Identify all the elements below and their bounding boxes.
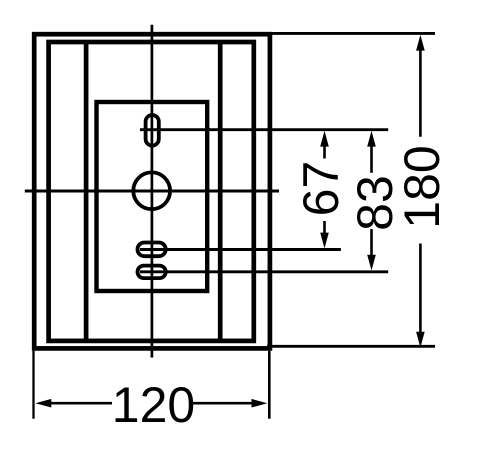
dimension 83: lower line segment [370, 229, 373, 256]
outer plate outline [34, 34, 270, 348]
dimension 67: bottom arrow [320, 233, 329, 249]
vertical centerline [151, 25, 154, 358]
extension line B (through lower slot 1) [140, 248, 341, 251]
extension line A (through top slot) [140, 128, 388, 131]
top extension line for 180 [267, 32, 435, 35]
dimension 180: upper line segment [419, 48, 422, 137]
extension line C (through lower slot 2) [140, 270, 388, 273]
left inner vertical line [84, 40, 89, 343]
dimension 67: lower line segment [323, 221, 326, 236]
second (inner) frame outline [49, 42, 254, 341]
dimension 120: right arrow [252, 399, 268, 408]
dimension 120: left arrow [36, 399, 52, 408]
horizontal centerline [25, 190, 279, 193]
dimension 67: top arrow [320, 131, 329, 147]
svg-text:67: 67 [293, 161, 349, 217]
center circle hole [133, 172, 170, 209]
dimension 120: right line segment [193, 402, 254, 405]
dimension 83: bottom arrow [367, 255, 376, 271]
lower slot 1 (obround) [138, 243, 166, 257]
dimension 180: top arrow [416, 35, 425, 51]
dimension 83: upper line segment [370, 144, 373, 173]
right inner vertical line [218, 40, 223, 343]
left extension line for 120 [32, 351, 34, 419]
dimension 180: lower line segment [419, 244, 422, 334]
dimension 67: upper line segment [323, 144, 326, 159]
right extension line for 120 [268, 351, 271, 419]
bottom extension line for 180 [267, 345, 435, 348]
lower slot 2 (obround) [138, 266, 166, 279]
dimension 83: top arrow [367, 131, 376, 147]
dimension 180: bottom arrow [416, 332, 425, 348]
dimension 120: left line segment [49, 402, 112, 405]
small mounting-plate rectangle [97, 102, 208, 291]
svg-text:120: 120 [112, 377, 195, 433]
svg-text:180: 180 [394, 145, 450, 228]
top mounting slot (obround) [146, 115, 159, 146]
